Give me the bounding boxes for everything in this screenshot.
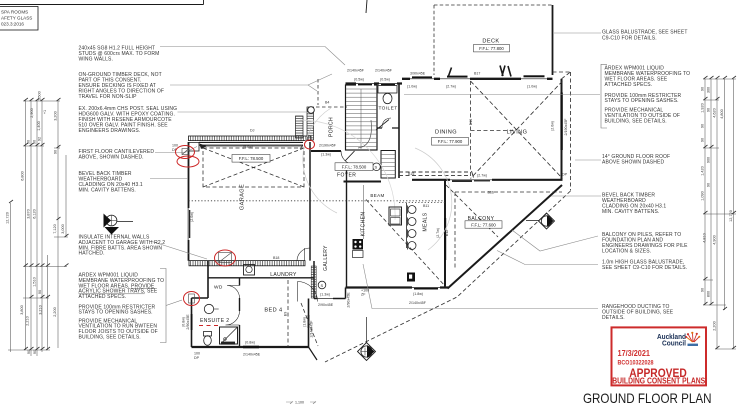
- svg-text:+1: +1: [43, 110, 47, 114]
- svg-text:LOCATION & SIZES.: LOCATION & SIZES.: [602, 249, 651, 255]
- svg-text:4,620: 4,620: [713, 108, 717, 118]
- svg-text:2/140x45F: 2/140x45F: [409, 301, 427, 305]
- svg-text:S: S: [375, 165, 378, 170]
- svg-text:GARAGE: GARAGE: [240, 184, 246, 210]
- svg-text:B16: B16: [488, 191, 494, 195]
- bed4 east double wall hatched: [308, 299, 310, 348]
- svg-text:12,720: 12,720: [729, 210, 733, 222]
- bed4 corner diagonal: [309, 347, 318, 360]
- PLAN_DASHED: [189, 5, 571, 362]
- svg-text:90: 90: [33, 140, 37, 144]
- svg-text:(2.7w): (2.7w): [446, 85, 456, 89]
- svg-text:2/190x45F: 2/190x45F: [319, 144, 337, 148]
- meals table+chairs: [406, 203, 408, 248]
- NOTES_RIGHT: [602, 30, 688, 42]
- svg-text:GROUND FLOOR PLAN: GROUND FLOOR PLAN: [583, 390, 712, 406]
- living bottom wall: [412, 179, 563, 181]
- wd/ensuite east wall with doors: [239, 278, 241, 347]
- svg-text:WD: WD: [214, 285, 223, 291]
- svg-text:ENSUITE 2: ENSUITE 2: [200, 318, 229, 324]
- svg-text:(2.0w): (2.0w): [190, 212, 194, 222]
- svg-text:(2.7w): (2.7w): [477, 173, 487, 177]
- deck balustrade marks: [449, 66, 512, 77]
- dim extension line top: [366, 0, 367, 13]
- svg-text:ENGINEERS DRAWINGS.: ENGINEERS DRAWINGS.: [79, 128, 141, 134]
- ensuite shower: [220, 327, 238, 344]
- svg-text:(1.3w): (1.3w): [320, 292, 330, 296]
- laundry tub: [244, 265, 255, 276]
- svg-text:800: 800: [707, 291, 711, 297]
- svg-text:DETAILS.: DETAILS.: [602, 315, 625, 321]
- svg-text:SEE SHEET C9-C10 FOR DETAILS.: SEE SHEET C9-C10 FOR DETAILS.: [602, 265, 687, 271]
- svg-text:90: 90: [27, 350, 31, 354]
- svg-text:90: 90: [27, 140, 31, 144]
- svg-text:WING WALLS.: WING WALLS.: [79, 56, 113, 62]
- svg-text:100: 100: [172, 144, 178, 148]
- svg-text:2/140x45E: 2/140x45E: [243, 353, 261, 357]
- svg-text:C9-C10 FOR DETAILS.: C9-C10 FOR DETAILS.: [602, 35, 657, 41]
- svg-text:STAYS TO OPENING SASHES.: STAYS TO OPENING SASHES.: [605, 98, 679, 104]
- wd fan circle: [204, 304, 213, 313]
- svg-text:DINING: DINING: [435, 130, 457, 136]
- DIMS_LEFT: [8, 98, 69, 356]
- svg-text:1,920: 1,920: [701, 103, 705, 113]
- bed4 door from hall: [298, 282, 318, 302]
- svg-text:2/190x45F: 2/190x45F: [564, 118, 568, 136]
- svg-text:90: 90: [701, 288, 705, 292]
- svg-text:GALLERY: GALLERY: [323, 245, 329, 271]
- svg-text:3,800: 3,800: [20, 305, 24, 315]
- svg-text:SPA ROOMS: SPA ROOMS: [1, 10, 28, 15]
- datum symbol left: [104, 214, 134, 235]
- svg-text:90: 90: [707, 108, 711, 112]
- svg-text:ABOVE SHOWN DASHED: ABOVE SHOWN DASHED: [602, 160, 664, 166]
- svg-text:(0.5w): (0.5w): [380, 78, 390, 82]
- porch canopy dashed: [316, 79, 347, 107]
- beam B9 dashed: [287, 280, 289, 347]
- deck dashed outline: [434, 5, 552, 75]
- svg-text:F.F.L: 77.800: F.F.L: 77.800: [479, 46, 504, 51]
- garage east wall: [309, 142, 311, 261]
- svg-text:MEALS: MEALS: [423, 212, 429, 231]
- svg-text:(2.6w): (2.6w): [551, 121, 555, 131]
- balcony balustrade diagonal: [448, 185, 563, 289]
- living X dashed: [471, 81, 563, 179]
- svg-text:(1.8w): (1.8w): [413, 292, 423, 296]
- meals east wall: [444, 180, 446, 288]
- svg-text:3,210: 3,210: [39, 305, 43, 315]
- kitchen/meals south wall: [346, 286, 449, 288]
- svg-text:(1.0w): (1.0w): [407, 85, 417, 89]
- wing wall hatched 1: [296, 116, 304, 138]
- cooktop: [353, 239, 364, 250]
- svg-text:90: 90: [33, 350, 37, 354]
- svg-text:3,000: 3,000: [61, 224, 65, 234]
- entry wall + door: [311, 150, 341, 152]
- datum symbol south (diamond): [358, 317, 376, 361]
- svg-text:4,900: 4,900: [713, 235, 717, 245]
- beam B15 dashed band: [399, 172, 469, 175]
- svg-text:PORCH: PORCH: [329, 117, 335, 137]
- first floor over NE dashed: [553, 72, 571, 191]
- svg-text:B4: B4: [325, 101, 329, 105]
- svg-text:2,200: 2,200: [713, 321, 717, 331]
- WC toilet room: [378, 86, 397, 94]
- svg-text:2/140x45F: 2/140x45F: [375, 69, 393, 73]
- svg-text:(1.3w): (1.3w): [321, 153, 331, 157]
- svg-text:(0.8w): (0.8w): [182, 317, 186, 327]
- garage west wall: [188, 142, 190, 261]
- svg-text:3,870: 3,870: [27, 209, 31, 219]
- svg-text:1,400: 1,400: [37, 121, 41, 131]
- svg-text:300: 300: [707, 87, 711, 93]
- svg-text:FOYER: FOYER: [337, 173, 356, 179]
- kitchen island + sinks: [389, 207, 402, 225]
- svg-text:90: 90: [701, 138, 705, 142]
- svg-text:LAUNDRY: LAUNDRY: [270, 272, 297, 278]
- svg-text:2/90x45E: 2/90x45E: [318, 303, 334, 307]
- svg-text:BUILDING, SEE DETAILS.: BUILDING, SEE DETAILS.: [79, 334, 141, 340]
- svg-text:1,100: 1,100: [295, 401, 304, 405]
- svg-text:(5.0w): (5.0w): [243, 145, 253, 149]
- svg-text:12,720: 12,720: [6, 212, 10, 224]
- svg-text:S: S: [321, 283, 324, 288]
- svg-text:TOILET: TOILET: [378, 106, 397, 112]
- garage top wall hatched: [189, 136, 312, 141]
- svg-text:MIN. CAVITY BATTENS.: MIN. CAVITY BATTENS.: [79, 187, 136, 193]
- svg-text:2/90x45E: 2/90x45E: [347, 292, 351, 308]
- garage west window (2.0w): [187, 208, 189, 240]
- svg-text:B15: B15: [408, 172, 414, 176]
- svg-text:900: 900: [707, 157, 711, 163]
- svg-text:F.F.L: 77.900: F.F.L: 77.900: [438, 139, 463, 144]
- svg-text:AFETY GLASS: AFETY GLASS: [1, 16, 32, 21]
- smoke detector circles S: [373, 163, 381, 171]
- house top wall left segment (porch/stair/toilet): [346, 82, 403, 84]
- black door/column meals: [407, 273, 415, 282]
- svg-text:B18: B18: [273, 256, 279, 260]
- svg-text:B13: B13: [469, 119, 473, 125]
- svg-text:1,090: 1,090: [701, 191, 705, 201]
- svg-text:100: 100: [194, 352, 200, 356]
- kitchen bench front: [363, 185, 365, 239]
- top-left detail box: [0, 0, 204, 30]
- light sweep arcs: [300, 108, 452, 250]
- foyer south wall: [344, 181, 382, 183]
- RED_ITEMS: [176, 140, 315, 326]
- PLAN_LABELS: [200, 39, 527, 325]
- svg-text:2,900: 2,900: [30, 108, 34, 118]
- bottom scale mark: [286, 401, 316, 405]
- garage bottom wall hatched: [189, 261, 305, 266]
- west block walls: [192, 261, 209, 347]
- laundry bottom wall: [208, 277, 314, 279]
- svg-text:92: 92: [38, 137, 42, 141]
- svg-text:B12: B12: [445, 230, 449, 236]
- garage cantilever dashed rect + X: [203, 148, 304, 187]
- stair lower flight: [381, 151, 395, 179]
- svg-text:90: 90: [54, 150, 58, 154]
- small window/beam labels: [172, 69, 568, 361]
- svg-text:Council: Council: [662, 340, 686, 347]
- svg-text:MIN. CAVITY BATTENS.: MIN. CAVITY BATTENS.: [602, 209, 659, 215]
- svg-text:BUILDING, SEE DETAILS.: BUILDING, SEE DETAILS.: [605, 119, 667, 125]
- beam B16 dashed: [455, 192, 562, 268]
- svg-text:90: 90: [38, 290, 42, 294]
- svg-text:2/140x45F: 2/140x45F: [310, 320, 314, 338]
- svg-text:F.F.L: 78.500: F.F.L: 78.500: [342, 165, 367, 170]
- toilet room: [377, 127, 399, 129]
- balcony roof dashed diagonals: [325, 191, 571, 362]
- svg-text:2,210: 2,210: [26, 316, 30, 326]
- garage dotted line: [189, 201, 446, 203]
- approval stamp: [612, 327, 707, 385]
- garage-gallery door arc: [297, 248, 310, 261]
- svg-text:B9: B9: [284, 312, 288, 316]
- datum symbol east (diamond): [526, 213, 555, 229]
- LEADERS: [150, 33, 601, 309]
- svg-text:F.F.L: 78.500: F.F.L: 78.500: [239, 156, 264, 161]
- svg-text:DJ: DJ: [250, 129, 255, 133]
- NOTES_LEFT: [79, 45, 178, 256]
- svg-text:DP: DP: [562, 173, 568, 177]
- svg-text:(0.5w): (0.5w): [354, 78, 364, 82]
- FIXTURES: [104, 86, 555, 361]
- gallery/kitchen divider wall: [346, 166, 348, 288]
- beam B13 dashed vertical: [470, 81, 472, 178]
- house top wall right segment (dining/living/deck edge): [402, 78, 553, 80]
- svg-text:STAYS TO OPENING SASHES.: STAYS TO OPENING SASHES.: [79, 310, 153, 316]
- south wall ensuite/bed4: [192, 346, 309, 348]
- svg-text:90: 90: [701, 87, 705, 91]
- svg-text:1,500: 1,500: [38, 91, 42, 101]
- svg-text:KITCHEN: KITCHEN: [361, 212, 367, 237]
- PLAN_WALLS: [0, 0, 563, 360]
- svg-text:BED 4: BED 4: [264, 308, 282, 314]
- svg-text:ABOVE, SHOWN DASHED.: ABOVE, SHOWN DASHED.: [79, 154, 144, 160]
- svg-text:4,800: 4,800: [720, 109, 724, 119]
- svg-text:6,120: 6,120: [33, 209, 37, 219]
- ensuite toilet: [204, 332, 212, 337]
- top-left box text: [1, 10, 32, 27]
- svg-text:17/3/2021: 17/3/2021: [618, 349, 651, 358]
- svg-text:LIVING: LIVING: [507, 130, 528, 136]
- svg-text:DECK: DECK: [482, 39, 499, 45]
- svg-text:3,200: 3,200: [54, 111, 58, 121]
- svg-text:7,120: 7,120: [53, 224, 57, 234]
- svg-text:4,810: 4,810: [703, 233, 707, 243]
- svg-text:B17: B17: [474, 72, 480, 76]
- svg-text:2,200: 2,200: [53, 307, 57, 317]
- svg-text:6,800: 6,800: [21, 171, 25, 181]
- svg-text:BUILDING CONSENT PLANS: BUILDING CONSENT PLANS: [612, 376, 706, 385]
- hall nook walls: [314, 261, 346, 299]
- svg-text:90: 90: [701, 124, 705, 128]
- svg-text:BEAM: BEAM: [370, 193, 384, 198]
- svg-text:2/140x45F: 2/140x45F: [347, 69, 365, 73]
- roof dashed at bed4 corner: [301, 303, 318, 346]
- stair block: [346, 85, 378, 150]
- FFL boxes: [232, 45, 510, 229]
- svg-text:TRAVEL FOR NON-SLIP: TRAVEL FOR NON-SLIP: [79, 94, 138, 100]
- svg-text:F.F.L: 77.600: F.F.L: 77.600: [471, 222, 496, 227]
- living east wall: [561, 79, 563, 181]
- wing wall hatched 2 + CHS post: [307, 107, 314, 140]
- svg-text:HATCHED.: HATCHED.: [79, 251, 105, 257]
- svg-text:1,420: 1,420: [701, 166, 705, 176]
- svg-text:023.3:2016: 023.3:2016: [1, 22, 24, 27]
- deck east wall: [552, 5, 554, 75]
- stair arrow arc: [358, 120, 371, 148]
- svg-text:B11: B11: [423, 204, 429, 208]
- svg-text:90: 90: [707, 183, 711, 187]
- svg-text:(2.7w): (2.7w): [436, 228, 440, 238]
- svg-text:1,510: 1,510: [33, 277, 37, 287]
- svg-text:ATTACHED SPECS.: ATTACHED SPECS.: [605, 82, 653, 88]
- svg-text:(1.8w): (1.8w): [303, 317, 307, 327]
- svg-text:3/90x45E: 3/90x45E: [410, 72, 426, 76]
- DIMS_RIGHT: [703, 76, 736, 349]
- svg-text:DP: DP: [194, 356, 200, 360]
- svg-text:2/90x45E: 2/90x45E: [186, 314, 190, 330]
- svg-text:(0.8w): (0.8w): [245, 341, 255, 345]
- svg-text:(1.0w): (1.0w): [527, 85, 537, 89]
- svg-text:ATTACHED SPECS.: ATTACHED SPECS.: [79, 294, 127, 300]
